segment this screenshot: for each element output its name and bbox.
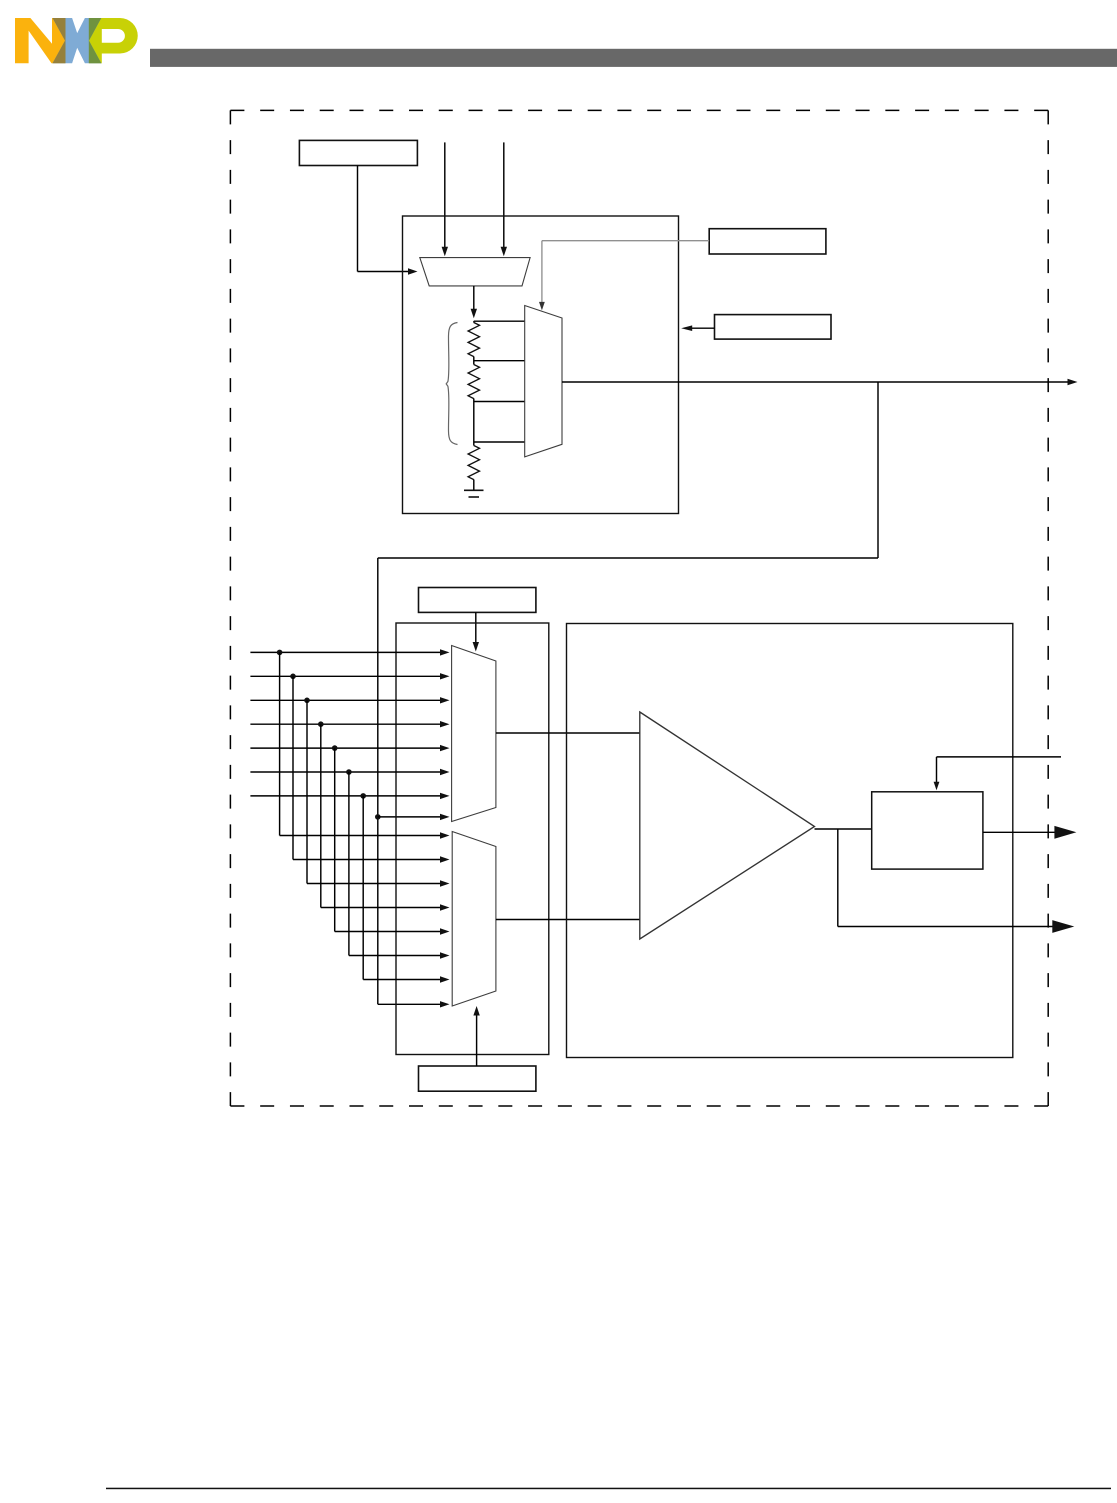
register box B1 xyxy=(299,140,417,165)
resistor R2 xyxy=(468,365,479,399)
wire analog input 6 xyxy=(250,769,449,959)
wire M3 output to comparator plus xyxy=(496,732,640,734)
wire M4 output to comparator minus xyxy=(496,919,640,921)
brace xyxy=(446,323,457,445)
resistor ladder tap wires xyxy=(474,321,525,490)
output filter box SB xyxy=(872,792,983,869)
wire B1 to input mux xyxy=(358,166,418,275)
register box B4 xyxy=(419,588,536,613)
register box B5 xyxy=(419,1066,536,1091)
wire analog input 4 xyxy=(250,721,449,911)
footer rule xyxy=(106,1488,1111,1490)
plus input mux M3 xyxy=(452,646,496,822)
wire SB output xyxy=(983,826,1077,839)
register box B3 xyxy=(715,315,832,340)
reference select mux M1 xyxy=(420,258,530,286)
wire analog input 3 xyxy=(250,697,449,887)
comparator container box C2 xyxy=(567,624,1013,1058)
wire analog input 5 xyxy=(250,745,449,935)
wire reference input 2 xyxy=(501,142,507,256)
mux container box C1 xyxy=(396,623,549,1055)
NXP logo xyxy=(15,18,138,63)
dashed module border xyxy=(230,110,1048,1106)
wire analog input 7 xyxy=(250,793,449,983)
wire M1 to resistor ladder xyxy=(471,286,477,318)
wire B4 to plus mux xyxy=(473,612,479,651)
minus input mux M4 xyxy=(452,832,496,1007)
wire raw comparator output xyxy=(838,829,1075,933)
wire reference input 1 xyxy=(442,142,448,256)
wire DAC output xyxy=(562,379,1078,386)
junction DAC to plus mux xyxy=(375,814,450,820)
header bar xyxy=(150,49,1117,67)
comparator U1 xyxy=(640,712,815,939)
ground xyxy=(464,490,484,497)
DAC block box xyxy=(403,216,679,514)
resistor R1 xyxy=(468,323,479,357)
resistor R3 xyxy=(468,446,479,480)
wire B5 to minus mux xyxy=(473,1006,479,1066)
DAC output mux M2 xyxy=(525,306,562,457)
wire B3 to DAC block xyxy=(681,325,714,331)
wire analog input 2 xyxy=(250,673,449,863)
select wire to SB xyxy=(934,757,1061,790)
wire comparator output xyxy=(815,828,872,830)
register box B2 xyxy=(709,229,826,254)
wire DAC output branch to lower muxes xyxy=(378,382,878,1008)
select wire B2 to M2 xyxy=(539,241,709,311)
wire analog input 1 xyxy=(250,649,449,839)
